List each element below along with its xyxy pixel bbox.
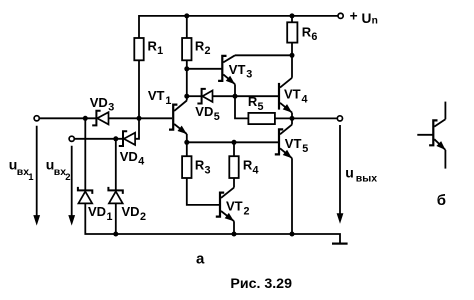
svg-text:Рис. 3.29: Рис. 3.29 [230, 276, 292, 292]
svg-text:5: 5 [258, 101, 264, 113]
svg-text:4: 4 [138, 156, 144, 168]
svg-text:R: R [148, 39, 158, 54]
svg-text:3: 3 [108, 101, 114, 113]
svg-text:5: 5 [214, 111, 220, 123]
svg-text:4: 4 [253, 164, 259, 176]
svg-text:R: R [248, 94, 258, 109]
svg-text:+: + [350, 9, 358, 24]
svg-text:вых: вых [356, 173, 377, 185]
svg-text:U: U [362, 11, 372, 26]
svg-text:б: б [437, 192, 446, 209]
svg-text:u: u [345, 164, 354, 180]
svg-text:3: 3 [205, 164, 211, 176]
svg-text:1: 1 [165, 95, 171, 107]
svg-text:4: 4 [302, 93, 308, 105]
svg-text:2: 2 [205, 45, 211, 57]
svg-text:2: 2 [140, 211, 146, 223]
svg-text:VT: VT [285, 136, 302, 151]
svg-text:R: R [302, 24, 312, 39]
svg-text:VD: VD [122, 204, 140, 219]
svg-text:R: R [195, 39, 205, 54]
svg-text:VT: VT [148, 88, 165, 103]
svg-text:1: 1 [107, 211, 113, 223]
svg-text:3: 3 [246, 68, 252, 80]
svg-text:1: 1 [157, 45, 163, 57]
svg-text:VD: VD [90, 95, 108, 110]
svg-text:2: 2 [65, 172, 70, 183]
svg-text:6: 6 [311, 31, 317, 43]
svg-text:VD: VD [120, 149, 138, 164]
svg-text:VD: VD [88, 204, 106, 219]
svg-text:VD: VD [195, 104, 213, 119]
svg-text:VT: VT [229, 62, 246, 77]
svg-text:а: а [196, 250, 205, 267]
svg-text:R: R [243, 158, 253, 173]
svg-text:VT: VT [284, 87, 301, 102]
svg-text:VT: VT [226, 199, 243, 214]
svg-text:2: 2 [244, 205, 250, 217]
svg-text:1: 1 [28, 172, 34, 183]
svg-text:5: 5 [302, 143, 308, 155]
svg-text:n: n [372, 16, 378, 27]
svg-text:R: R [195, 158, 205, 173]
